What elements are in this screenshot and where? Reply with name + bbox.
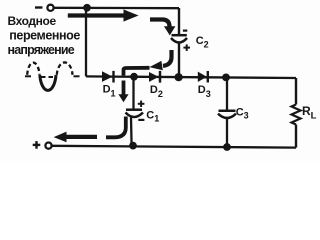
svg-text:переменное: переменное [9, 28, 80, 42]
wire: right vertical branch bottom [295, 125, 297, 148]
wire: C2 branch lower [178, 42, 180, 77]
wire: main horizontal line [86, 76, 296, 78]
capacitor C1 [126, 110, 144, 117]
current arrow: down into C1 [118, 81, 128, 103]
node C: C2 bottom junction [175, 73, 183, 81]
current arrow: along bottom wire to output [54, 132, 97, 143]
diode D2 [149, 71, 160, 83]
current arrow: down into C2 [150, 20, 175, 36]
svg-text:напряжение: напряжение [8, 43, 75, 57]
node E: C1 bottom junction [129, 142, 137, 150]
wire: top horizontal [54, 7, 179, 10]
current arrow tail: from main line toward D2 [124, 68, 150, 76]
output terminal bottom circle [45, 143, 51, 149]
node D: C3 top junction [222, 74, 230, 82]
current arrow: out of C1 bottom [106, 117, 126, 138]
wire: bottom horizontal [53, 146, 297, 148]
label C1 plus [138, 101, 145, 107]
svg-text:Входное: Входное [8, 14, 57, 28]
wire: C1 branch upper [132, 77, 134, 110]
wire: C3 branch upper [226, 77, 228, 111]
diode D1 [102, 71, 114, 83]
label C2 minus [183, 30, 187, 32]
input terminal minus sign [35, 6, 43, 8]
label: input voltage text [8, 14, 81, 57]
node F: C3 bottom junction [223, 143, 231, 151]
wire: C1 branch lower [130, 117, 133, 147]
resistor RL [292, 105, 301, 125]
AC waveform symbol [25, 62, 80, 90]
wire: left vertical branch [85, 8, 87, 76]
node: top junction [83, 4, 91, 12]
label C1 minus [138, 119, 144, 121]
wire: C2 branch upper [178, 8, 180, 35]
wire: C3 branch lower [226, 118, 228, 147]
capacitor C3 [218, 111, 236, 118]
output terminal plus sign [33, 141, 41, 149]
label C2 plus [183, 44, 190, 51]
capacitor C2 [171, 35, 187, 42]
current arrow: along top wire [68, 9, 139, 21]
node B: D1-D2 junction (C1 top) [130, 73, 138, 81]
input terminal top circle [47, 5, 53, 11]
wire: right vertical branch top [295, 78, 297, 105]
diode D3 [198, 71, 208, 83]
current arrow: out of C2 toward D2 [149, 50, 171, 70]
